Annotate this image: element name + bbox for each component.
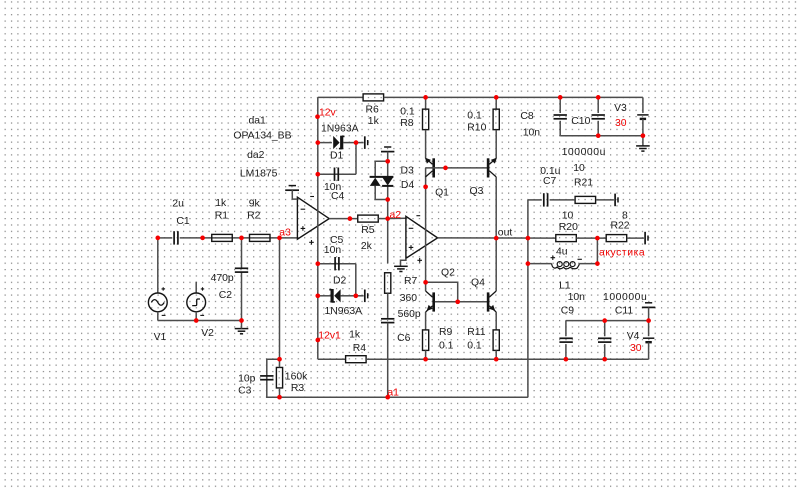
svg-text:1k: 1k (349, 330, 361, 341)
svg-text:10n: 10n (568, 292, 586, 303)
svg-text:Q2: Q2 (441, 267, 455, 278)
wire L1 Q1 to Q2 (425, 168, 427, 291)
svg-text:R10: R10 (467, 123, 486, 134)
wire C8 C10 V3 bottom row (560, 135, 643, 137)
wire R20 R22 junction vertical (596, 238, 598, 264)
svg-text:D1: D1 (330, 151, 344, 162)
svg-text:R9: R9 (439, 327, 453, 338)
junction D3D4 top (385, 159, 390, 164)
svg-text:Q3: Q3 (470, 186, 484, 197)
svg-text:R7: R7 (404, 276, 418, 287)
wire L2 Q4 to R11 (495, 312, 497, 330)
op-amp U2 power plus label (417, 258, 422, 263)
wire V1 top vertical (157, 238, 159, 293)
wire C10 stub (597, 97, 599, 113)
wire inductor row right (579, 263, 597, 265)
wire L2 R10 to Q3 (495, 130, 497, 159)
op-amp U2 input plus (409, 245, 414, 250)
wire C2 vertical (241, 238, 243, 269)
junction R20-R22 (595, 236, 600, 241)
svg-text:V1: V1 (154, 332, 167, 343)
svg-text:V3: V3 (614, 103, 627, 114)
diode D3 (370, 176, 394, 178)
svg-text:Q4: Q4 (471, 277, 485, 288)
terminal T2 after D2 (365, 290, 368, 303)
wire Q1 Q3 base row (426, 167, 487, 169)
wire bottom a1 rail (267, 396, 528, 398)
terminal T3 above D3/D4 (381, 147, 394, 152)
wire inductor row left (528, 263, 552, 265)
wire L1 R9 to rail (425, 350, 427, 359)
op-amp U2 power minus label (416, 215, 420, 217)
wire D1 cathode to node (343, 142, 356, 144)
op-amp U1 power plus label (309, 240, 314, 245)
wire R3 vertical (279, 359, 281, 367)
capacitor C3 (260, 376, 273, 380)
resistor R3 (276, 367, 282, 388)
svg-text:da2: da2 (247, 150, 265, 161)
resistor R10 (493, 109, 499, 129)
op-amp U1 da1 OPA134 (297, 197, 329, 239)
svg-text:R8: R8 (400, 118, 414, 129)
wire D2 node to terminal (356, 295, 364, 297)
junction R10 rail (494, 95, 499, 100)
wire D2 anode to node (341, 295, 356, 297)
svg-text:560p: 560p (398, 309, 421, 320)
svg-text:C8: C8 (520, 111, 534, 122)
wire C6 to a1 (387, 323, 389, 398)
wire 12v top rail (318, 96, 363, 98)
svg-text:D4: D4 (401, 180, 415, 191)
junction V1 top corner (155, 236, 160, 241)
junction C2 tee (239, 236, 244, 241)
wire D1 node to terminal (356, 142, 364, 144)
wire C5 row (318, 263, 356, 265)
junction D1 right (354, 140, 359, 145)
junction V3 bottom (641, 133, 646, 138)
svg-text:R3: R3 (291, 383, 305, 394)
wire L1 Q2 to R9 (425, 312, 427, 330)
svg-text:2k: 2k (361, 241, 373, 252)
battery source V3 (637, 115, 648, 119)
wire R5 to a2 (378, 217, 406, 219)
transistor Q1 (425, 158, 434, 178)
junction C1-R1 (200, 236, 205, 241)
wire Q2 Q4 base row (435, 301, 487, 303)
wire V3 ground stub (642, 136, 644, 146)
wire U2 ground stub (401, 258, 406, 266)
svg-text:360: 360 (400, 293, 418, 304)
op-amp U2 input minus (409, 227, 414, 229)
wire R22 to terminal (627, 237, 644, 239)
wire D3/D4 frame (375, 161, 388, 177)
resistor R5 (358, 215, 379, 222)
wire V3 drop (642, 97, 644, 113)
terminal T5 after R22 (645, 232, 648, 245)
svg-text:R1: R1 (215, 211, 229, 222)
resistor R4 (346, 356, 367, 363)
diode D2 zener 1N963A (331, 289, 334, 303)
junction C3 top (277, 357, 282, 362)
svg-text:0.1: 0.1 (467, 111, 482, 122)
wire R4 row (318, 358, 345, 360)
V1 minus sign (162, 314, 166, 316)
V2 minus sign (200, 314, 204, 316)
junction a2 (385, 216, 390, 221)
resistor R22 (606, 235, 627, 242)
wire U1 power stub (292, 190, 297, 199)
transistor Q4 (488, 291, 496, 312)
wire R4 to rail (366, 358, 648, 360)
svg-text:0.1: 0.1 (439, 340, 454, 351)
battery source V4 (643, 338, 654, 342)
wire main input row (158, 237, 173, 239)
svg-text:da1: da1 (249, 116, 267, 127)
junction Q1 collector node (423, 184, 428, 189)
svg-text:C11: C11 (615, 306, 634, 317)
junction 12v net label dot (315, 114, 320, 119)
capacitor C11 (598, 338, 611, 342)
V2 plus sign (201, 287, 204, 290)
resistor R2 (250, 234, 271, 241)
wire C11 stub (604, 321, 606, 337)
ground G2 below U2 (394, 266, 408, 271)
svg-text:R4: R4 (353, 343, 367, 354)
wire D3D4 to a2 (387, 200, 389, 219)
resistor R9 (423, 330, 429, 351)
svg-text:C7: C7 (543, 176, 557, 187)
wire C7 branch vertical (527, 200, 529, 397)
junction D3D4 bottom (385, 197, 390, 202)
capacitor C5 (335, 257, 339, 270)
op-amp U2 da2 LM1875 (406, 216, 438, 258)
wire V1 bottom (157, 312, 159, 321)
svg-text:10n: 10n (324, 245, 342, 256)
svg-text:LM1875: LM1875 (240, 169, 278, 180)
capacitor C1 (174, 231, 178, 244)
svg-text:C1: C1 (176, 216, 190, 227)
junction C11 bottom (602, 357, 607, 362)
junction D2 left (315, 293, 320, 298)
junction C3 bottom (277, 395, 282, 400)
svg-text:D3: D3 (401, 166, 415, 177)
wire C4 row (318, 173, 356, 175)
wire Q2 bias loop (426, 282, 458, 302)
junction ground tee (239, 318, 244, 323)
svg-text:0.1: 0.1 (467, 340, 482, 351)
wire L1 R8 to Q1 (425, 130, 427, 159)
resistor R11 (493, 330, 499, 351)
wire D1 anode stub (318, 142, 332, 144)
wire C8 stub (559, 97, 561, 113)
wire V2 bottom (195, 312, 197, 321)
op-amp U1 input plus (301, 226, 306, 231)
wire a3 to C3 vertical (279, 238, 281, 359)
junction D2 right (353, 293, 358, 298)
capacitor C2 (235, 268, 248, 272)
wire R7 to C6 (387, 293, 389, 318)
junction 12v1 (315, 338, 320, 343)
svg-text:R21: R21 (574, 177, 593, 188)
junction C10 rail (596, 95, 601, 100)
source V1 (148, 293, 167, 312)
svg-text:акустика: акустика (599, 248, 645, 259)
source V2 (187, 293, 206, 312)
svg-text:Q1: Q1 (435, 187, 449, 198)
junction Q2 loop top (423, 280, 428, 285)
ground G3 below V3 (636, 146, 650, 151)
terminal T6 above V4 (642, 303, 655, 308)
svg-text:R20: R20 (559, 222, 578, 233)
power bar terminal above U1 (285, 186, 299, 191)
svg-text:R6: R6 (366, 104, 380, 115)
wire sources bottom row (158, 320, 242, 322)
resistor R8 (423, 109, 429, 129)
junction C4 left (315, 172, 320, 177)
wire D3/D4 top stub (387, 152, 389, 162)
svg-text:V4: V4 (627, 331, 640, 342)
junction Q1 Q3 base (443, 166, 448, 171)
svg-text:12v1: 12v1 (318, 331, 341, 342)
resistor R21 (575, 196, 596, 203)
junction a3 (277, 236, 282, 241)
junction R8 rail (423, 95, 428, 100)
svg-text:out: out (498, 228, 513, 239)
svg-text:C3: C3 (238, 386, 252, 397)
wire C9 C11 V4 top row (566, 320, 649, 322)
wire D2 cathode stub (318, 295, 332, 297)
svg-text:1N963A: 1N963A (321, 124, 359, 135)
svg-text:R2: R2 (247, 211, 261, 222)
junction C9 bottom (564, 357, 569, 362)
svg-text:C6: C6 (397, 333, 411, 344)
svg-text:R11: R11 (467, 327, 486, 338)
svg-text:30: 30 (615, 118, 627, 129)
wire 12v feedback vertical (317, 97, 319, 359)
wire V4 terminal stub (648, 307, 650, 320)
junction D1 left (315, 140, 320, 145)
wire C7 row (528, 199, 542, 201)
junction C5 left (315, 261, 320, 266)
op-amp U1 power minus label (310, 196, 314, 198)
svg-text:30: 30 (630, 343, 642, 354)
svg-text:12v: 12v (319, 107, 337, 118)
wire a2 to R7 (387, 219, 389, 264)
capacitor C10 (592, 115, 605, 119)
junction V2 bottom (194, 318, 199, 323)
L1 minus sign (578, 258, 582, 260)
wire C3 branch loop (267, 359, 280, 397)
junction C11 top (602, 318, 607, 323)
capacitor C7 (544, 193, 548, 206)
junction C8 rail (558, 95, 563, 100)
diode D4 (382, 177, 393, 185)
wire L2 R11 to rail (495, 350, 497, 359)
svg-text:10: 10 (573, 163, 585, 174)
wire L2 upper (495, 97, 497, 108)
junction out at L2 (494, 236, 499, 241)
junction L1 right (595, 261, 600, 266)
svg-text:470p: 470p (211, 273, 234, 284)
svg-text:9k: 9k (249, 198, 261, 209)
wire R20 to R22 (576, 237, 606, 239)
L1 plus sign (551, 255, 556, 260)
wire L1 upper (425, 97, 427, 108)
svg-text:10p: 10p (238, 374, 256, 385)
svg-text:1N963A: 1N963A (325, 306, 363, 317)
svg-text:4u: 4u (556, 246, 568, 257)
svg-text:1k: 1k (215, 198, 227, 209)
svg-text:100000u: 100000u (562, 147, 606, 158)
junction V4 top (646, 318, 651, 323)
wire C9 stub (565, 321, 567, 337)
wire V2 top stub (195, 282, 197, 293)
svg-text:C10: C10 (571, 116, 590, 127)
svg-text:0.1: 0.1 (400, 106, 415, 117)
svg-text:100000u: 100000u (603, 292, 647, 303)
svg-text:a2: a2 (390, 210, 402, 221)
capacitor C4 (335, 168, 339, 181)
junction U1 output (348, 216, 353, 221)
terminal T4 after R21 (615, 194, 618, 207)
svg-text:R22: R22 (611, 221, 630, 232)
resistor R20 (556, 235, 577, 242)
transistor Q3 (488, 158, 497, 178)
svg-text:V2: V2 (201, 328, 214, 339)
svg-text:D2: D2 (333, 275, 347, 286)
svg-text:160k: 160k (285, 371, 308, 382)
junction C10 bottom (596, 133, 601, 138)
transistor Q2 (426, 291, 434, 312)
ground G1 below sources (235, 329, 249, 334)
svg-text:R5: R5 (361, 225, 375, 236)
junction R9 bottom (423, 357, 428, 362)
wire V4 drop (648, 321, 650, 337)
resistor R6 (363, 94, 384, 101)
wire U1 output to R5 (329, 218, 357, 220)
svg-text:L1: L1 (559, 280, 571, 291)
svg-text:1k: 1k (368, 116, 380, 127)
svg-text:10n: 10n (523, 127, 541, 138)
svg-text:C4: C4 (331, 191, 345, 202)
capacitor C9 (559, 338, 572, 342)
resistor R7 (385, 273, 391, 294)
svg-text:OPA134_BB: OPA134_BB (233, 131, 291, 142)
op-amp U1 input minus (301, 208, 306, 210)
V1 plus sign (162, 287, 165, 290)
wire D1/C4 right side (355, 143, 357, 175)
wire ground stub G1 (241, 321, 243, 329)
resistor R1 (212, 234, 233, 241)
svg-text:10: 10 (562, 210, 574, 221)
svg-text:C9: C9 (561, 306, 575, 317)
capacitor C6 (381, 319, 394, 323)
diode D1 zener 1N963A (333, 136, 339, 149)
junction R11 bottom (494, 357, 499, 362)
wire out row (438, 237, 556, 239)
inductor L1 (552, 262, 580, 269)
svg-text:C2: C2 (219, 290, 233, 301)
junction Q2 Q4 base (455, 299, 460, 304)
svg-text:2u: 2u (172, 199, 184, 210)
junction out at C7 line (526, 236, 531, 241)
junction L1 left (526, 261, 531, 266)
capacitor C8 (554, 115, 567, 119)
wire C5/D2 right side (355, 264, 357, 296)
wire L2 Q3 to Q4 (495, 177, 497, 291)
junction a1 (385, 395, 390, 400)
terminal T1 after D1 (365, 136, 368, 149)
